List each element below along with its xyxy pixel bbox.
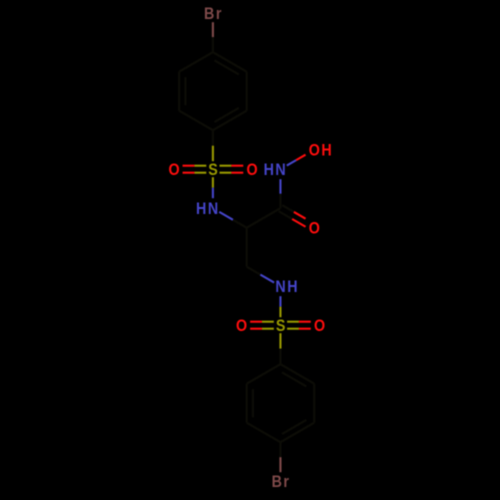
svg-text:O: O (309, 220, 322, 238)
svg-text:O: O (236, 317, 249, 335)
svg-text:HN: HN (264, 161, 288, 179)
svg-text:HN: HN (196, 200, 220, 218)
svg-text:S: S (208, 161, 219, 179)
svg-text:Br: Br (272, 473, 291, 491)
svg-text:S: S (276, 317, 287, 335)
svg-text:NH: NH (275, 278, 299, 296)
svg-text:O: O (314, 317, 327, 335)
svg-text:O: O (246, 161, 259, 179)
svg-text:Br: Br (204, 5, 223, 23)
svg-text:O: O (168, 161, 181, 179)
svg-text:OH: OH (309, 142, 333, 160)
